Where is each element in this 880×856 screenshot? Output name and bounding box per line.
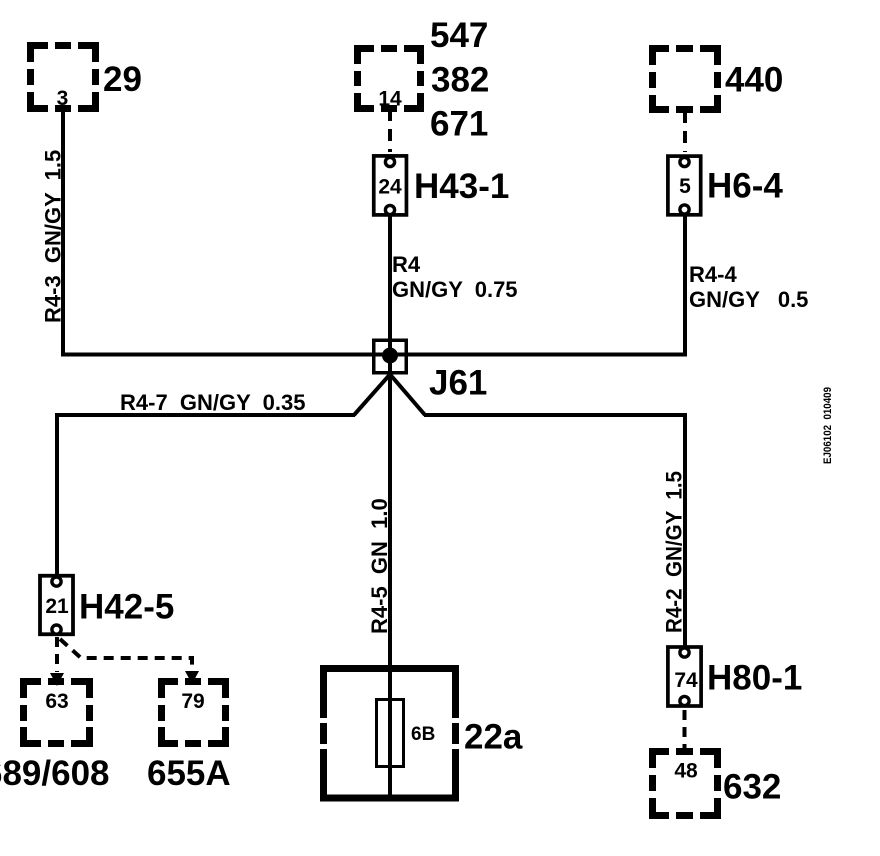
wire diagonal right from junction	[391, 376, 425, 416]
wire R4-3 vertical from box 29	[61, 108, 65, 357]
connector H6-4	[668, 156, 701, 215]
dashed wire H42-5 to box 63	[55, 637, 59, 672]
wire main horizontal to junction	[61, 353, 687, 357]
svg-text:632: 632	[723, 768, 781, 807]
wire label R4-2 GN/GY 1.5 (vertical)	[662, 471, 687, 633]
svg-text:EJ06102 010409: EJ06102 010409	[822, 387, 834, 464]
dashed wire H80-1 to box 48	[683, 710, 687, 748]
svg-text:R4-2 GN/GY 1.5: R4-2 GN/GY 1.5	[662, 471, 687, 633]
svg-text:H42-5: H42-5	[79, 588, 174, 627]
arrowhead into box 63	[50, 673, 64, 686]
dashed wire H42-5 to box 79	[60, 639, 192, 670]
junction J61 box	[374, 340, 407, 373]
wire R4-7 horizontal left branch	[55, 413, 355, 578]
wire R4-2 horizontal right branch	[424, 413, 685, 647]
connector box 63 (dashed)	[20, 678, 93, 747]
svg-text:R4-5 GN 1.0: R4-5 GN 1.0	[367, 498, 392, 634]
svg-text:R4-4: R4-4	[689, 262, 737, 287]
svg-text:79: 79	[181, 690, 204, 713]
svg-text:29: 29	[103, 60, 142, 99]
doc number EJ06102 010409 (vertical)	[822, 387, 834, 464]
svg-text:H6-4: H6-4	[707, 167, 783, 206]
svg-text:3: 3	[57, 87, 69, 110]
svg-text:671: 671	[430, 105, 488, 144]
junction J61 dot	[382, 348, 398, 364]
svg-text:22a: 22a	[464, 718, 523, 757]
wire label R4-3 GN/GY 1.5 (vertical)	[41, 150, 66, 323]
svg-text:R4-3 GN/GY 1.5: R4-3 GN/GY 1.5	[41, 150, 66, 323]
connector H43-1	[374, 156, 407, 215]
connector box 14 (dashed)	[354, 45, 424, 112]
connector H42-5	[40, 576, 73, 635]
svg-text:R4: R4	[392, 252, 421, 277]
svg-text:14: 14	[378, 88, 402, 111]
svg-text:689/608: 689/608	[0, 754, 110, 793]
svg-text:48: 48	[674, 760, 698, 783]
dashed wire box440 to H6-4	[683, 111, 687, 152]
svg-text:21: 21	[45, 595, 69, 618]
svg-text:H80-1: H80-1	[707, 659, 802, 698]
svg-text:655A: 655A	[147, 754, 231, 793]
svg-text:24: 24	[378, 176, 402, 199]
svg-text:382: 382	[431, 61, 489, 100]
connector box 29 (dashed)	[27, 42, 99, 112]
component box 22a (thick dashed)	[320, 665, 459, 801]
connector box 48 (dashed)	[649, 748, 721, 819]
connector box 79 (dashed)	[158, 678, 229, 747]
svg-text:74: 74	[674, 669, 698, 692]
svg-text:440: 440	[725, 61, 783, 100]
arrowhead into box 79	[185, 671, 199, 684]
svg-text:547: 547	[430, 16, 488, 55]
svg-text:63: 63	[45, 690, 68, 713]
wire R4 vertical from H43-1 down through junction to 22a	[388, 213, 392, 799]
wire diagonal left from junction	[354, 376, 389, 416]
svg-text:6B: 6B	[411, 724, 435, 745]
dashed wire box14 to H43-1	[388, 109, 392, 152]
svg-text:J61: J61	[429, 364, 487, 403]
svg-text:GN/GY 0.75: GN/GY 0.75	[392, 277, 518, 302]
wire R4-4 vertical from H6-4	[683, 215, 687, 357]
svg-text:R4-7 GN/GY 0.35: R4-7 GN/GY 0.35	[120, 390, 305, 415]
svg-text:5: 5	[679, 175, 691, 198]
connector box 440 (dashed)	[649, 45, 721, 113]
wire label R4-5 GN 1.0 (vertical)	[367, 498, 392, 634]
connector H80-1	[668, 647, 701, 706]
svg-text:H43-1: H43-1	[414, 167, 509, 206]
svg-text:GN/GY 0.5: GN/GY 0.5	[689, 287, 808, 312]
fuse 6B inside 22a	[377, 700, 404, 767]
